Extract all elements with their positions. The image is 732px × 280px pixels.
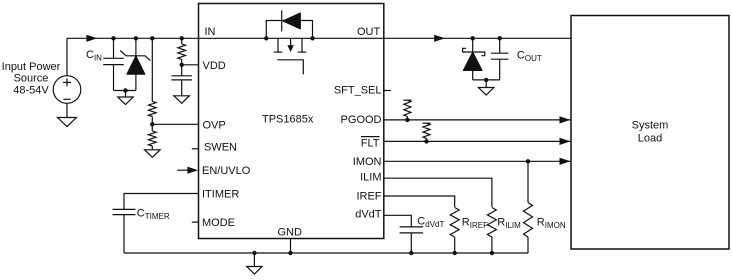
wire: IREF net [384, 196, 455, 207]
capacitor C2 (VDD bypass) [171, 76, 192, 80]
wire: IMON net [384, 160, 571, 162]
node: RILIM / ground rail [490, 251, 494, 255]
SWEN pin stub [192, 148, 199, 150]
svg-text:OVP: OVP [203, 119, 226, 131]
node: OVP tap [150, 122, 154, 126]
node: input rail / OVP divider junction [150, 36, 154, 40]
svg-text:VDD: VDD [203, 60, 226, 72]
node: FLT pull-up junction [424, 139, 428, 143]
node: D3/COUT ground junction [484, 78, 488, 82]
ground below R2 [145, 146, 161, 157]
body diode D2 of Q1 [282, 10, 301, 31]
wire: dVdT net [384, 215, 412, 227]
svg-text:SFT_SEL: SFT_SEL [334, 85, 382, 97]
TVS diode D1 (input clamp) [120, 38, 150, 90]
wire: ILIM net [384, 178, 492, 207]
svg-text:MODE: MODE [202, 217, 235, 229]
ground below source [58, 118, 77, 127]
resistor R3 (VDD filter) [178, 38, 186, 76]
SFT_SEL pin stub [384, 90, 391, 92]
TVS diode D3 (output clamp) [463, 38, 485, 80]
current-direction arrow on OUT net [434, 35, 445, 42]
node: GND pin / rail [288, 251, 292, 255]
system load box [571, 16, 729, 250]
node: RIREF / ground rail [453, 251, 457, 255]
MODE pin stub [192, 221, 199, 223]
wire: FLT net [384, 140, 571, 142]
node: FET drain junction [264, 36, 268, 40]
node: input rail / VDD branch junction [180, 36, 184, 40]
capacitor CTIMER [113, 209, 136, 253]
arrow into load (PGOOD) [560, 116, 571, 123]
wire: main input rail [67, 37, 199, 39]
svg-text:EN/UVLO: EN/UVLO [202, 165, 251, 177]
resistor R4 (PGOOD pull-up) [403, 100, 411, 120]
svg-text:GND: GND [278, 227, 303, 239]
EN/UVLO input arrow [177, 167, 198, 174]
wire: D3-COUT bottom join [473, 79, 500, 81]
node: OUT / D3 junction [471, 36, 475, 40]
ground below C2 [174, 80, 190, 103]
wire: bottom ground rail [124, 252, 528, 254]
resistor R5 (FLT pull-up) [422, 123, 430, 141]
svg-text:IN: IN [205, 26, 216, 38]
wire: internal rail IN-OUT [199, 37, 384, 39]
arrow into load (IMON) [560, 158, 571, 165]
resistor RIREF [450, 208, 459, 254]
svg-text:SWEN: SWEN [204, 142, 237, 154]
ground below D3/COUT [478, 80, 494, 95]
wire OVP tap to OVP pin [152, 123, 198, 125]
svg-text:dVdT: dVdT [355, 209, 382, 221]
node: VDD pin junction [180, 63, 184, 67]
input power source V1 [53, 76, 81, 104]
node: input rail / CIN junction [111, 36, 115, 40]
node: ground-symbol tap [252, 251, 256, 255]
svg-text:OUT: OUT [357, 26, 381, 38]
arrow into load (FLT) [560, 138, 571, 145]
node: FET source junction [310, 36, 314, 40]
svg-text:TPS1685x: TPS1685x [262, 114, 314, 126]
resistor RIMON [524, 161, 533, 253]
wire: ITIMER net [124, 194, 199, 210]
wire: CIN-D1 bottom join [114, 90, 136, 92]
resistor RILIM [487, 208, 496, 254]
svg-text:IMON: IMON [353, 156, 382, 168]
node: IMON / RIMON junction [526, 159, 530, 163]
wire: OUT net [384, 37, 571, 39]
wire R1 to OVP node [151, 117, 153, 131]
node: CIN/D1 ground junction [123, 88, 127, 92]
svg-text:ILIM: ILIM [360, 171, 381, 183]
wire: rail to OVP divider [151, 38, 153, 101]
node: CdVdT / ground rail [409, 251, 413, 255]
capacitor CdVdT [400, 227, 424, 253]
ground below CIN/D1 [118, 91, 133, 105]
svg-text:PGOOD: PGOOD [341, 114, 382, 126]
capacitor CIN [103, 38, 124, 90]
svg-text:ITIMER: ITIMER [202, 188, 239, 200]
wire source bottom [66, 103, 68, 117]
capacitor COUT [491, 38, 509, 80]
wire: PGOOD net [384, 119, 571, 121]
svg-text:IREF: IREF [356, 191, 381, 203]
node: input rail / D1 junction [134, 36, 138, 40]
wire: GND pin to rail [290, 239, 292, 254]
resistor R1 (OVP top) [149, 101, 157, 116]
wire VDD node to VDD pin [182, 64, 199, 66]
resistor R2 (OVP bottom) [149, 131, 157, 146]
wire source top to input rail [66, 38, 68, 75]
current-direction arrow on input rail [86, 35, 97, 42]
wire: body-diode loop [266, 21, 312, 39]
node: PGOOD pull-up junction [405, 118, 409, 122]
svg-text:FLT: FLT [361, 137, 380, 149]
op IC U1 TPS1685x box [199, 4, 384, 239]
node: OUT / COUT junction [498, 36, 502, 40]
transistor Q1 (integrated FET) [274, 38, 306, 74]
ground on bottom rail [247, 253, 262, 274]
